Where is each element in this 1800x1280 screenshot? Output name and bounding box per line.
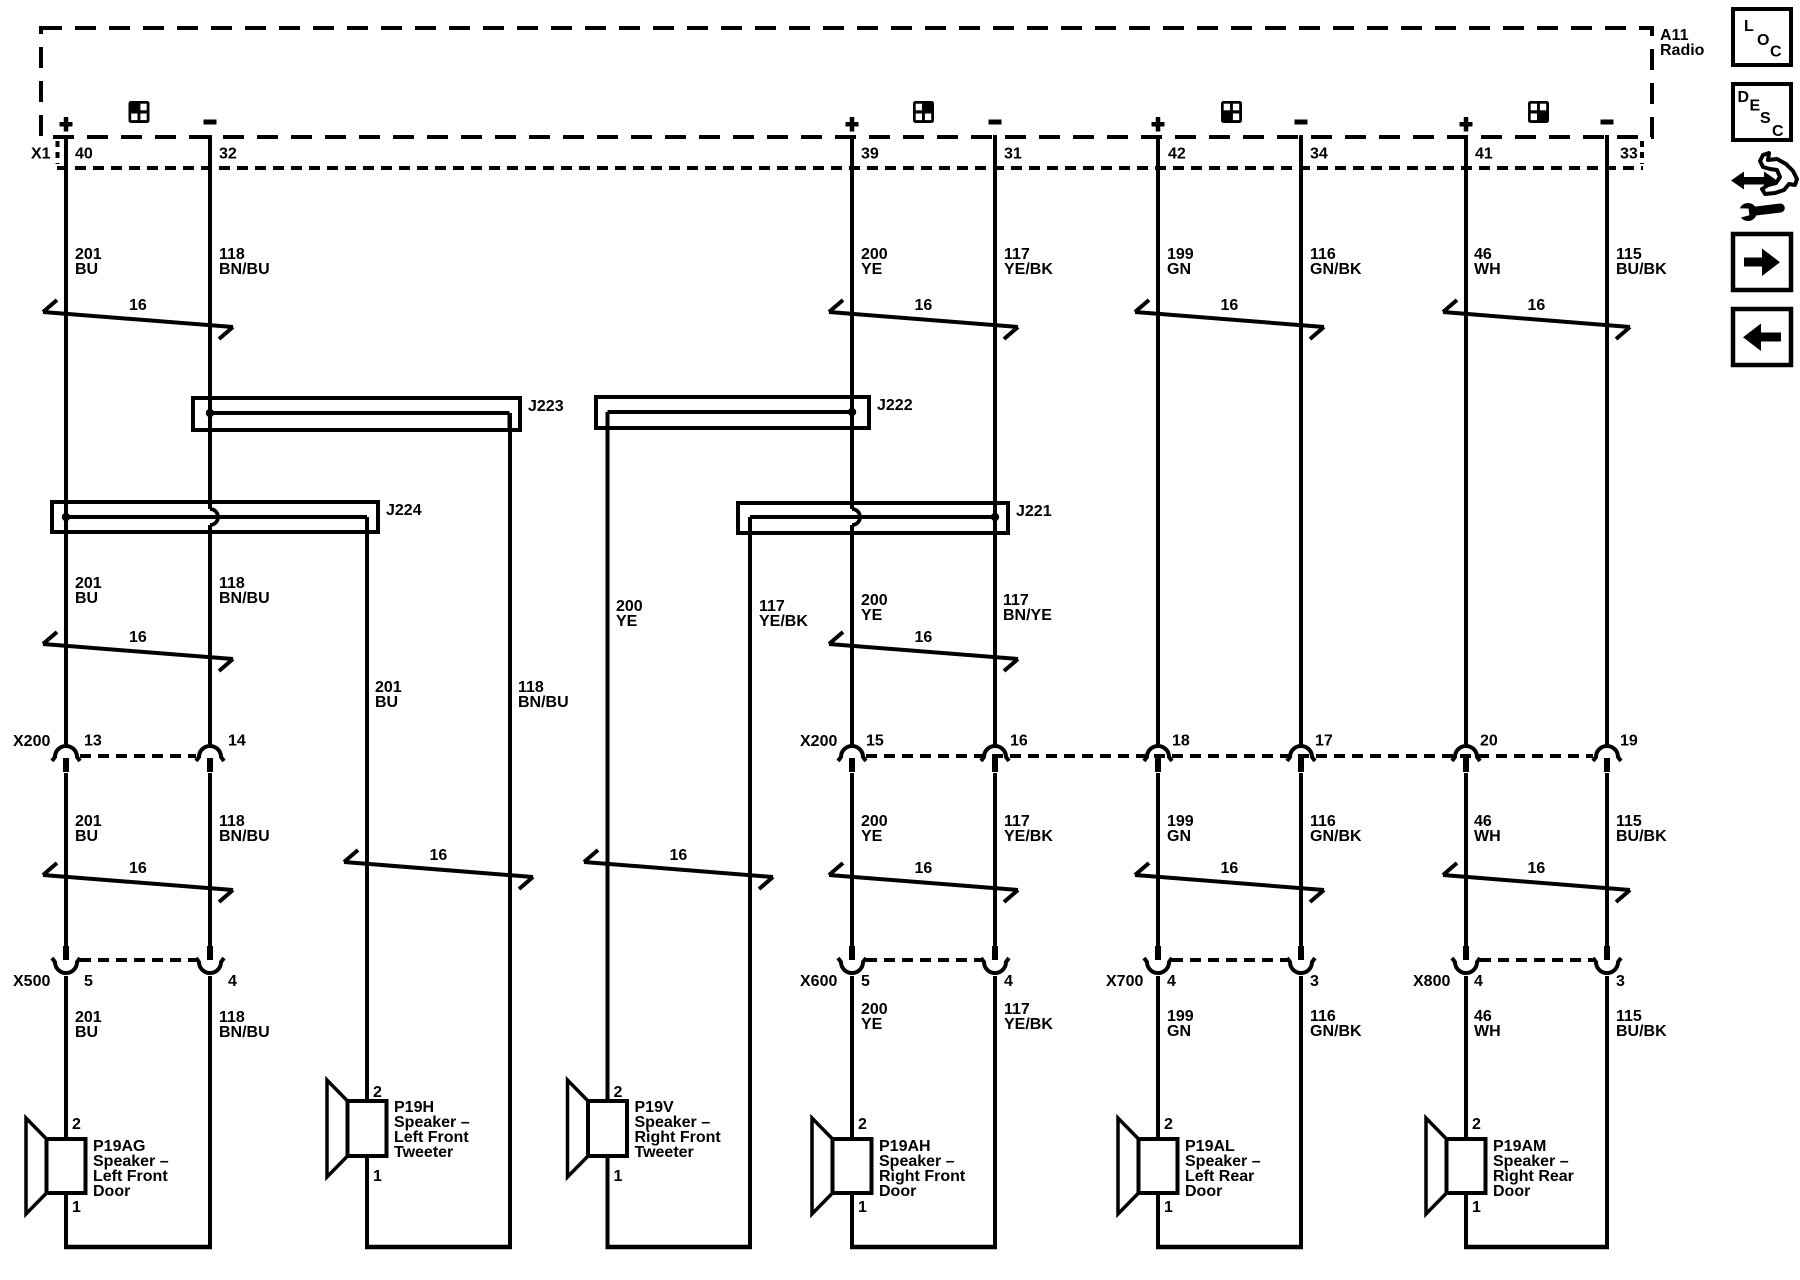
svg-text:Door: Door — [1493, 1183, 1530, 1200]
LOC legend box — [1733, 9, 1791, 65]
connector X200 terminal 15 — [838, 746, 866, 772]
harness routing icon (arrows and wrench) — [1730, 153, 1797, 223]
svg-text:18: 18 — [1172, 733, 1190, 750]
speaker P19AH — [812, 1118, 872, 1214]
svg-text:33: 33 — [1620, 146, 1638, 163]
svg-text:GN: GN — [1167, 261, 1191, 278]
svg-text:39: 39 — [861, 146, 879, 163]
svg-text:17: 17 — [1315, 733, 1333, 750]
svg-text:BN/BU: BN/BU — [219, 590, 270, 607]
channel icon left front (top-left filled) — [129, 101, 150, 123]
svg-text:BU: BU — [75, 261, 98, 278]
svg-text:BN/BU: BN/BU — [219, 1024, 270, 1041]
svg-text:40: 40 — [75, 146, 93, 163]
return wire at bottom of P19V — [606, 1245, 753, 1250]
splice J222 — [596, 397, 869, 430]
label 201 BU (mid) — [75, 575, 102, 607]
svg-text:J224: J224 — [386, 502, 422, 519]
svg-text:Door: Door — [93, 1183, 130, 1200]
wire 117 YE/BK branch from J221 to tweeter P19V return — [748, 517, 752, 1249]
return wire at bottom of P19AL — [1156, 1245, 1303, 1250]
connector X200 terminal 14 — [196, 746, 224, 772]
polarity + (RF) — [846, 117, 859, 132]
label 116 GN/BK (below X200) — [1310, 813, 1362, 845]
svg-text:X200: X200 — [800, 733, 837, 750]
svg-text:5: 5 — [84, 973, 93, 990]
svg-text:BU/BK: BU/BK — [1616, 261, 1667, 278]
wire gauge 16 marker (top, wires x=852,995) — [829, 297, 1018, 339]
svg-text:16: 16 — [430, 847, 448, 864]
radio A11 dashed outline box — [41, 28, 1652, 137]
svg-text:14: 14 — [228, 733, 246, 750]
svg-text:X1: X1 — [31, 146, 51, 163]
svg-text:Tweeter: Tweeter — [394, 1144, 453, 1161]
svg-text:YE/BK: YE/BK — [1004, 1016, 1053, 1033]
svg-text:1: 1 — [373, 1168, 382, 1185]
svg-text:X800: X800 — [1413, 973, 1450, 990]
svg-text:2: 2 — [1472, 1116, 1481, 1133]
svg-text:2: 2 — [373, 1084, 382, 1101]
svg-text:YE: YE — [861, 1016, 883, 1033]
polarity - (RF) — [989, 120, 1002, 125]
connector X200 terminal 13 — [52, 746, 80, 772]
label 118 BN/BU (bottom) — [219, 1009, 270, 1041]
label 116 GN/BK (top) — [1310, 246, 1362, 278]
svg-text:4: 4 — [228, 973, 237, 990]
svg-text:31: 31 — [1004, 146, 1022, 163]
svg-text:5: 5 — [861, 973, 870, 990]
label 117 YE/BK (bottom) — [1004, 1001, 1053, 1033]
connector X200 harness dashed line (right group) — [866, 754, 1593, 758]
svg-text:4: 4 — [1474, 973, 1483, 990]
label P19H Speaker - Left Front Tweeter — [394, 1099, 470, 1161]
label 200 YE (below X200) — [861, 813, 888, 845]
connector X200 harness dashed line (left pair) — [80, 754, 196, 758]
label 118 BN/BU (tweeter branch) — [518, 679, 569, 711]
label 200 YE (mid) — [861, 592, 888, 624]
wire 201 BU circuit (radio pin 40 down to speaker P19AG) — [64, 135, 68, 1249]
wire 117 YE/BK circuit (radio pin 31 down) — [993, 135, 997, 1249]
svg-text:16: 16 — [1528, 297, 1546, 314]
connector X800 terminal 3 — [1593, 946, 1621, 973]
connector X500 harness dashed line — [80, 958, 196, 962]
wire gauge 16 marker (tweeter branch, wires x=607,750) — [584, 847, 773, 889]
wire gauge 16 marker (middle, wires x=852,995) — [829, 629, 1018, 671]
svg-text:YE: YE — [861, 607, 883, 624]
return wire at bottom of P19AG — [64, 1245, 212, 1250]
polarity + (RR) — [1460, 117, 1473, 132]
svg-text:YE: YE — [616, 613, 638, 630]
wire gauge 16 marker (top, wires x=1466,1607) — [1443, 297, 1630, 339]
connector X700 terminal 3 — [1287, 946, 1315, 973]
svg-text:16: 16 — [915, 297, 933, 314]
label 201 BU (tweeter branch) — [375, 679, 402, 711]
label 200 YE (top) — [861, 246, 888, 278]
connector X200 terminal 18 — [1144, 746, 1172, 772]
svg-text:WH: WH — [1474, 261, 1501, 278]
label P19AH Speaker - Right Front Door — [879, 1138, 966, 1200]
svg-text:GN/BK: GN/BK — [1310, 261, 1362, 278]
connector X700 terminal 4 — [1144, 946, 1172, 973]
wire 115 BU/BK circuit (radio pin 33 down) — [1605, 135, 1609, 1249]
svg-text:J223: J223 — [528, 398, 564, 415]
svg-text:E: E — [1750, 98, 1761, 115]
svg-text:20: 20 — [1480, 733, 1498, 750]
label P19AL Speaker - Left Rear Door — [1185, 1138, 1261, 1200]
svg-text:BN/BU: BN/BU — [219, 261, 270, 278]
DESC legend box — [1733, 84, 1791, 140]
label 115 BU/BK (below X200) — [1616, 813, 1667, 845]
svg-text:2: 2 — [1164, 1116, 1173, 1133]
svg-text:X500: X500 — [13, 973, 50, 990]
svg-text:YE/BK: YE/BK — [759, 613, 808, 630]
svg-text:C: C — [1772, 123, 1784, 140]
label 46 WH (bottom) — [1474, 1008, 1501, 1040]
connector X500 terminal 4 — [196, 946, 224, 973]
connector X800 terminal 4 — [1452, 946, 1480, 973]
wire gauge 16 marker (lower, wires x=66,210) — [43, 860, 233, 902]
svg-text:YE: YE — [861, 828, 883, 845]
label 115 BU/BK (top) — [1616, 246, 1667, 278]
svg-text:WH: WH — [1474, 1023, 1501, 1040]
svg-text:1: 1 — [614, 1168, 623, 1185]
connector X200 terminal 20 — [1452, 746, 1480, 772]
label A11 Radio — [1660, 27, 1705, 59]
svg-text:15: 15 — [866, 733, 884, 750]
svg-text:16: 16 — [129, 860, 147, 877]
wire 200 YE circuit (radio pin 39 down to speaker P19AH, hops over J221 branch) — [852, 135, 860, 1249]
speaker P19AG — [26, 1118, 86, 1214]
svg-text:BN/BU: BN/BU — [219, 828, 270, 845]
svg-text:BU: BU — [75, 828, 98, 845]
label P19AM Speaker - Right Rear Door — [1493, 1138, 1574, 1200]
wire 199 GN circuit (radio pin 42 down to speaker P19AL) — [1156, 135, 1160, 1249]
svg-text:1: 1 — [72, 1199, 81, 1216]
back arrow legend box — [1733, 309, 1791, 365]
svg-text:BN/YE: BN/YE — [1003, 607, 1052, 624]
svg-text:16: 16 — [1221, 860, 1239, 877]
polarity - (RR) — [1601, 120, 1614, 125]
connector X600 terminal 5 — [838, 946, 866, 973]
label 200 YE (tweeter branch) — [616, 598, 643, 630]
label P19AG Speaker - Left Front Door — [93, 1138, 169, 1200]
svg-text:16: 16 — [915, 629, 933, 646]
svg-text:Radio: Radio — [1660, 42, 1705, 59]
svg-text:Door: Door — [879, 1183, 916, 1200]
wire 200 YE branch from J222 to tweeter P19V — [606, 412, 610, 1249]
label 46 WH (top) — [1474, 246, 1501, 278]
svg-text:YE/BK: YE/BK — [1004, 261, 1053, 278]
svg-text:GN: GN — [1167, 828, 1191, 845]
svg-text:GN/BK: GN/BK — [1310, 828, 1362, 845]
svg-text:19: 19 — [1620, 733, 1638, 750]
label 116 GN/BK (bottom) — [1310, 1008, 1362, 1040]
svg-text:BN/BU: BN/BU — [518, 694, 569, 711]
label 118 BN/BU (below X200) — [219, 813, 270, 845]
return wire at bottom of P19AH — [850, 1245, 997, 1250]
svg-text:2: 2 — [72, 1116, 81, 1133]
svg-text:X600: X600 — [800, 973, 837, 990]
svg-text:32: 32 — [219, 146, 237, 163]
speaker P19AM — [1426, 1118, 1486, 1214]
svg-text:Door: Door — [1185, 1183, 1222, 1200]
svg-text:D: D — [1738, 89, 1750, 106]
svg-text:16: 16 — [915, 860, 933, 877]
polarity - (LR) — [1295, 120, 1308, 125]
svg-text:J221: J221 — [1016, 503, 1052, 520]
svg-text:S: S — [1760, 110, 1771, 127]
svg-text:X200: X200 — [13, 733, 50, 750]
connector X200 terminal 17 — [1287, 746, 1315, 772]
svg-text:BU: BU — [375, 694, 398, 711]
polarity + (LR) — [1152, 117, 1165, 132]
wire 201 BU branch from J224 to tweeter P19H — [365, 517, 369, 1249]
polarity + (LF) — [60, 117, 73, 132]
label 199 GN (bottom) — [1167, 1008, 1194, 1040]
svg-text:16: 16 — [129, 629, 147, 646]
svg-text:YE: YE — [861, 261, 883, 278]
connector X500 terminal 5 — [52, 946, 80, 973]
wire gauge 16 marker (top, wires x=66,210) — [43, 297, 233, 339]
svg-text:1: 1 — [1472, 1199, 1481, 1216]
label 117 YE/BK (tweeter branch) — [759, 598, 808, 630]
svg-text:L: L — [1744, 18, 1754, 35]
label 117 YE/BK (top) — [1004, 246, 1053, 278]
speaker P19H — [327, 1080, 387, 1177]
svg-text:16: 16 — [1528, 860, 1546, 877]
connector X800 harness dashed line — [1480, 958, 1593, 962]
label 115 BU/BK (bottom) — [1616, 1008, 1667, 1040]
svg-text:BU: BU — [75, 590, 98, 607]
label 118 BN/BU (mid) — [219, 575, 270, 607]
speaker P19V — [568, 1080, 628, 1177]
svg-text:BU/BK: BU/BK — [1616, 1023, 1667, 1040]
svg-text:4: 4 — [1004, 973, 1013, 990]
label 201 BU (top) — [75, 246, 102, 278]
wire 46 WH circuit (radio pin 41 down to speaker P19AM) — [1464, 135, 1468, 1249]
wire gauge 16 marker (top, wires x=1158,1301) — [1135, 297, 1324, 339]
splice J221 — [738, 503, 1008, 535]
svg-text:16: 16 — [1010, 733, 1028, 750]
splice J223 — [193, 398, 520, 432]
svg-text:3: 3 — [1310, 973, 1319, 990]
connector X700 harness dashed line — [1172, 958, 1287, 962]
svg-text:3: 3 — [1616, 973, 1625, 990]
wire 118 BN/BU branch from J223 to tweeter P19H return — [508, 413, 512, 1249]
label 46 WH (below X200) — [1474, 813, 1501, 845]
connector X1 row (dotted) — [57, 141, 1643, 168]
svg-text:Tweeter: Tweeter — [635, 1144, 694, 1161]
svg-text:YE/BK: YE/BK — [1004, 828, 1053, 845]
svg-text:34: 34 — [1310, 146, 1328, 163]
svg-text:13: 13 — [84, 733, 102, 750]
svg-text:1: 1 — [1164, 1199, 1173, 1216]
label 201 BU (below X200) — [75, 813, 102, 845]
svg-text:BU: BU — [75, 1024, 98, 1041]
channel icon right rear (bottom-right filled) — [1528, 101, 1549, 123]
svg-text:16: 16 — [670, 847, 688, 864]
connector X200 terminal 16 — [981, 746, 1009, 772]
svg-text:O: O — [1757, 32, 1769, 49]
channel icon left rear (bottom-left filled) — [1221, 101, 1242, 123]
label 199 GN (below X200) — [1167, 813, 1194, 845]
svg-text:16: 16 — [1221, 297, 1239, 314]
wire 116 GN/BK circuit (radio pin 34 down) — [1299, 135, 1303, 1249]
return wire at bottom of P19H — [365, 1245, 512, 1250]
return wire at bottom of P19AM — [1464, 1245, 1609, 1250]
label 200 YE (bottom) — [861, 1001, 888, 1033]
label 199 GN (top) — [1167, 246, 1194, 278]
svg-text:2: 2 — [858, 1116, 867, 1133]
svg-text:16: 16 — [129, 297, 147, 314]
splice J224 — [52, 502, 378, 534]
svg-text:BU/BK: BU/BK — [1616, 828, 1667, 845]
connector X600 harness dashed line — [866, 958, 981, 962]
svg-text:GN/BK: GN/BK — [1310, 1023, 1362, 1040]
label 117 YE/BK (below X200) — [1004, 813, 1053, 845]
forward arrow legend box — [1733, 234, 1791, 290]
label 118 BN/BU (top) — [219, 246, 270, 278]
label 117 BN/YE (mid) — [1003, 592, 1052, 624]
wire gauge 16 marker (lower, wires x=852,995) — [829, 860, 1018, 902]
svg-text:1: 1 — [858, 1199, 867, 1216]
polarity - (LF) — [204, 120, 217, 125]
svg-text:WH: WH — [1474, 828, 1501, 845]
label 201 BU (bottom) — [75, 1009, 102, 1041]
svg-text:X700: X700 — [1106, 973, 1143, 990]
svg-text:42: 42 — [1168, 146, 1186, 163]
svg-text:4: 4 — [1167, 973, 1176, 990]
svg-text:2: 2 — [614, 1084, 623, 1101]
svg-text:C: C — [1770, 44, 1782, 61]
svg-text:GN: GN — [1167, 1023, 1191, 1040]
label P19V Speaker - Right Front Tweeter — [635, 1099, 722, 1161]
channel icon right front (top-right filled) — [913, 101, 934, 123]
wire gauge 16 marker (lower, wires x=1466,1607) — [1443, 860, 1630, 902]
wire gauge 16 marker (tweeter branch, wires x=367,510) — [344, 847, 533, 889]
wire gauge 16 marker (middle, wires x=66,210) — [43, 629, 233, 671]
wire 118 BN/BU circuit (radio pin 32 down, hops over J224 branch) — [210, 135, 218, 1249]
svg-text:J222: J222 — [877, 397, 913, 414]
connector X600 terminal 4 — [981, 946, 1009, 973]
svg-text:41: 41 — [1475, 146, 1493, 163]
wire gauge 16 marker (lower, wires x=1158,1301) — [1135, 860, 1324, 902]
connector X200 terminal 19 — [1593, 746, 1621, 772]
speaker P19AL — [1118, 1118, 1178, 1214]
